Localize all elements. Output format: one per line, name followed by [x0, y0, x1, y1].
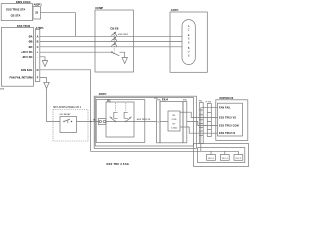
svg-text:B: B — [37, 40, 39, 44]
svg-text:DCPC: DCPC — [99, 92, 107, 96]
svg-text:K1: K1 — [107, 98, 111, 102]
EIU4 right connector — [183, 100, 187, 143]
aux switch — [111, 52, 124, 58]
svg-text:FAN FAIL RETURN: FAN FAIL RETURN — [9, 76, 32, 80]
svg-text:+28 V DC: +28 V DC — [21, 50, 32, 54]
ACPC box — [170, 8, 207, 72]
PLC box 3 — [234, 155, 243, 161]
DCPGM inner unit box — [218, 103, 243, 136]
K1 contact 2 — [124, 112, 131, 122]
K1 contact 1 — [110, 112, 118, 122]
wire K52 to DCPC — [77, 121, 101, 123]
wire TB to K1 and out — [106, 121, 157, 123]
resistor box — [168, 111, 180, 131]
wire ESS TRU2 FAIL — [91, 122, 239, 152]
wire +28V to CB aux switch — [40, 51, 112, 53]
svg-text:-: - — [37, 56, 38, 59]
svg-text:DCPGM #2: DCPGM #2 — [220, 96, 234, 100]
svg-text:PLC 4: PLC 4 — [222, 158, 228, 160]
relay K1 box — [106, 98, 134, 137]
wire FAN FAIL riser — [201, 108, 218, 152]
svg-text:A83P1: A83P1 — [34, 3, 43, 7]
EWS COLD panel box — [1, 0, 32, 21]
svg-text:ESS TRU2 VS: ESS TRU2 VS — [137, 119, 151, 121]
svg-text:P 373: P 373 — [206, 102, 212, 104]
svg-text:ØA: ØA — [29, 34, 33, 38]
PLC enclosure outer — [193, 144, 248, 167]
K1 linkage dashed poles — [115, 103, 117, 112]
wire into resistor box — [160, 121, 168, 123]
MTX ADCPG PANEL NO 2 dashed box — [53, 106, 88, 141]
EIU4 left connector — [154, 98, 160, 143]
enclosure E2 — [95, 98, 193, 146]
K52 relay box — [60, 113, 77, 133]
svg-text:ESS TRU2 STA: ESS TRU2 STA — [6, 8, 25, 12]
PLC box 1 — [207, 155, 216, 161]
svg-text:EWS COLD: EWS COLD — [16, 0, 31, 4]
wire COM jog — [187, 122, 218, 126]
PLC stub 1 — [210, 151, 212, 154]
wire phase A — [40, 35, 182, 37]
terminal block TB — [93, 119, 106, 125]
svg-text:ACPC: ACPC — [171, 8, 179, 12]
PLC enclosure inner — [198, 148, 245, 163]
svg-text:CB-E8: CB-E8 — [110, 27, 119, 31]
circuit breaker pole C — [112, 43, 117, 47]
svg-text:EIU4: EIU4 — [162, 98, 168, 102]
svg-text:1.5KΩ: 1.5KΩ — [171, 127, 177, 129]
svg-text:ESS TRU2: ESS TRU2 — [118, 34, 129, 36]
wire to K52 relay — [47, 88, 61, 121]
wire FAN FAIL D — [40, 70, 91, 122]
wire resistor out top — [180, 111, 187, 113]
svg-text:ESS TRU2 IS: ESS TRU2 IS — [219, 132, 235, 135]
circuit breaker pole B — [112, 37, 117, 41]
svg-text:PLC 6: PLC 6 — [208, 158, 214, 160]
junction dot — [90, 121, 92, 123]
enclosure E1 — [94, 96, 196, 148]
DCPGM #2 box — [216, 96, 248, 140]
ground -28V — [42, 61, 47, 67]
circuit breaker pole A — [112, 32, 129, 36]
PLC stub 3 — [237, 151, 239, 154]
wire IS jog — [187, 127, 218, 133]
ESS TRU2 box — [1, 24, 33, 86]
connector A76P1 — [35, 26, 44, 82]
ground arrow FAN FAIL RETURN — [44, 82, 49, 88]
svg-text:-28 V DC: -28 V DC — [22, 55, 33, 59]
svg-text:A76P1: A76P1 — [35, 26, 44, 30]
svg-text:ØB: ØB — [29, 40, 33, 44]
DCPC box — [96, 92, 145, 142]
svg-text:ESS TRU2 VS: ESS TRU2 VS — [219, 116, 236, 119]
wire VS jog — [187, 112, 218, 117]
connector P3x column — [199, 101, 204, 144]
svg-text:CCMP: CCMP — [95, 6, 103, 10]
ground CCMP aux — [122, 58, 127, 64]
svg-text:ESS TRU2 COM: ESS TRU2 COM — [219, 124, 239, 127]
svg-text:MTX ADCPG PANEL NO 2: MTX ADCPG PANEL NO 2 — [53, 106, 82, 109]
wire phase B — [40, 41, 182, 43]
svg-text:D: D — [37, 68, 39, 72]
wire FAN FAIL RETURN F — [40, 78, 47, 83]
svg-text:CB STA: CB STA — [11, 13, 21, 17]
connector A83P1 — [33, 3, 42, 19]
svg-text:FAN FAIL: FAN FAIL — [21, 68, 33, 72]
wire pin22 to phase A — [41, 13, 76, 37]
PLC stub 2 — [224, 151, 226, 154]
svg-text:ESS TRU2: ESS TRU2 — [17, 24, 31, 28]
svg-text:FAN FAIL: FAN FAIL — [219, 107, 231, 110]
svg-text:C: C — [37, 45, 39, 49]
wire -28V stub — [40, 57, 45, 61]
connector P373 column — [206, 102, 212, 137]
breaker linkage dashed — [113, 33, 115, 51]
svg-text:ØC: ØC — [29, 45, 33, 49]
EIU4 box — [160, 98, 183, 143]
wire resistor out bottom — [180, 126, 187, 128]
svg-text:PLC 2: PLC 2 — [236, 158, 242, 160]
wire phase C — [40, 46, 182, 48]
CCMP box — [95, 6, 133, 72]
PLC box 2 — [220, 155, 229, 161]
svg-text:ESS TRU 2 FAIL: ESS TRU 2 FAIL — [107, 162, 130, 166]
svg-text:K52 RELAY: K52 RELAY — [60, 113, 72, 116]
svg-text:A: A — [37, 34, 39, 38]
svg-text:22: 22 — [35, 11, 38, 15]
svg-text:2 KΩ: 2 KΩ — [172, 119, 177, 121]
AC ESS BUS stadium — [182, 20, 195, 65]
